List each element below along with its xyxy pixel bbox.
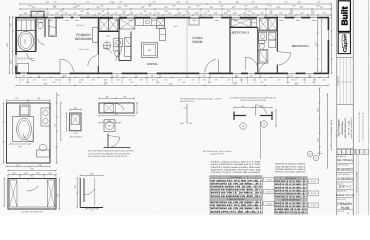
svg-text:1'8": 1'8"	[215, 79, 218, 82]
svg-text:2'10": 2'10"	[55, 79, 59, 82]
windows bottom wall	[20, 72, 28, 74]
svg-text:8'7": 8'7"	[115, 113, 118, 116]
svg-text:6'3": 6'3"	[59, 10, 62, 13]
svg-text:9/16/2022: 9/16/2022	[337, 168, 353, 172]
svg-text:HEAT LOSS BTU 24,600 A/C 2.: HEAT LOSS BTU 24,600 A/C 2.5 TON	[211, 163, 262, 166]
svg-text:3'4": 3'4"	[178, 12, 181, 15]
svg-text:5'6": 5'6"	[104, 82, 108, 85]
svg-text:1'6": 1'6"	[12, 172, 15, 175]
svg-text:7'2": 7'2"	[10, 23, 13, 26]
svg-text:36: 36	[242, 125, 244, 128]
svg-text:56-BSS-7674-24 PRIMARY PLAN: 56-BSS-7674-24 PRIMARY PLAN	[330, 119, 333, 150]
svg-text:ON LH ENTRY HOME. SEE SHT 2 FO: ON LH ENTRY HOME. SEE SHT 2 FOR NOTES	[88, 155, 128, 158]
svg-text:5'2": 5'2"	[140, 79, 143, 82]
right margin lines	[355, 150, 357, 214]
d1 shower box	[20, 105, 31, 116]
svg-text:DINING: DINING	[147, 62, 158, 66]
svg-text:13'-6 x 14'-0: 13'-6 x 14'-0	[79, 48, 89, 51]
svg-text:2'4": 2'4"	[252, 12, 255, 15]
table B callouts	[309, 179, 319, 183]
primary bdrm exterior door arc	[61, 59, 74, 72]
d1 bottom dim	[7, 166, 51, 168]
svg-text:4'0": 4'0"	[53, 1, 56, 4]
svg-text:3 LITE: 3 LITE	[266, 191, 272, 194]
svg-text:2'4": 2'4"	[114, 12, 117, 15]
svg-text:MODEL NO: MODEL NO	[337, 190, 347, 193]
fridge	[157, 19, 165, 29]
svg-text:WIND ZONE 1 THERMAL 2: WIND ZONE 1 THERMAL 2	[350, 117, 353, 138]
svg-text:3'0": 3'0"	[292, 5, 295, 8]
svg-text:5'2": 5'2"	[300, 12, 303, 15]
svg-text:Anniversary: Anniversary	[341, 121, 344, 135]
svg-text:2'0": 2'0"	[323, 79, 326, 82]
bed3 door arc	[245, 57, 258, 68]
d2 upper dim	[8, 169, 56, 171]
svg-text:3'4": 3'4"	[141, 6, 145, 9]
svg-text:2'8": 2'8"	[18, 145, 22, 148]
svg-text:4'0": 4'0"	[286, 81, 289, 84]
svg-text:SIZE 30X60 VINYL LOW-E: SIZE 30X60 VINYL LOW-E	[275, 165, 306, 168]
svg-text:OPT W/D 2'8" DOOR OPT: OPT W/D 2'8" DOOR OPT	[21, 210, 43, 213]
svg-text:DATE DRAWN: DATE DRAWN	[337, 164, 349, 167]
svg-text:8'0": 8'0"	[30, 168, 33, 171]
svg-text:5'6": 5'6"	[316, 5, 319, 8]
svg-text:1/19/2024: 1/19/2024	[337, 177, 353, 181]
dresser	[93, 28, 98, 43]
svg-text:CIRCUIT AMPS MAIN PANEL 200: CIRCUIT AMPS MAIN PANEL 200 AMP	[211, 166, 262, 169]
svg-text:7'6": 7'6"	[86, 12, 89, 15]
svg-text:3050: 3050	[65, 19, 69, 22]
primary bedroom right wall	[97, 17, 99, 73]
svg-text:5'2": 5'2"	[73, 12, 76, 15]
svg-text:3'4": 3'4"	[298, 1, 302, 4]
revision circles	[307, 151, 312, 156]
marriage line	[186, 19, 188, 73]
svg-text:4'0": 4'0"	[260, 12, 263, 15]
svg-text:6'3": 6'3"	[148, 12, 151, 15]
svg-text:9'2": 9'2"	[152, 79, 155, 82]
svg-text:2'8": 2'8"	[151, 75, 154, 78]
closet rod below bath	[18, 58, 35, 60]
svg-text:5'6": 5'6"	[56, 193, 59, 196]
windows top wall	[48, 17, 56, 19]
svg-text:DOORS 36X80 EXT LABELS: DOORS 36X80 EXT LABELS	[275, 168, 306, 171]
toilet room	[44, 17, 46, 37]
bottom dimension row 2	[16, 84, 328, 86]
svg-text:6'3": 6'3"	[214, 12, 217, 15]
svg-text:3/16" = 1': 3/16" = 1'	[339, 184, 352, 188]
svg-text:3'4": 3'4"	[78, 81, 81, 84]
svg-text:5'2": 5'2"	[300, 6, 304, 9]
title block fields	[337, 154, 353, 156]
primary bath toilet	[114, 47, 121, 51]
bath door arc	[27, 53, 36, 61]
primary bath vanity	[114, 39, 123, 47]
svg-text:3'4": 3'4"	[37, 97, 41, 100]
svg-text:FRONT DOOR ACTIVE OPTION: FRONT DOOR ACTIVE OPTION	[240, 99, 266, 102]
utility walls	[118, 17, 120, 61]
svg-text:GLASS LITE OPT: GLASS LITE OPT	[210, 153, 225, 156]
kitchen side counter	[160, 29, 166, 41]
svg-text:2'4": 2'4"	[196, 5, 199, 8]
svg-text:3'0": 3'0"	[218, 1, 221, 4]
svg-text:2 LITE: 2 LITE	[266, 203, 272, 206]
media cabinet	[189, 19, 199, 26]
svg-text:2'8": 2'8"	[203, 75, 206, 78]
D5 drawing	[234, 107, 272, 109]
svg-text:OPT FAN: OPT FAN	[76, 24, 84, 27]
svg-text:DO NOT SCALE DRAWING: DO NOT SCALE DRAWING	[356, 171, 359, 193]
bottom dimension row 1	[16, 76, 328, 78]
svg-text:BEDROOM: BEDROOM	[75, 37, 92, 41]
svg-text:2'8": 2'8"	[290, 75, 293, 78]
svg-text:3'4": 3'4"	[157, 12, 160, 15]
d4 door arc detail	[107, 134, 109, 148]
svg-text:6'3": 6'3"	[254, 6, 258, 9]
svg-text:3050: 3050	[152, 19, 156, 22]
svg-text:3050: 3050	[215, 19, 219, 22]
svg-text:4 LITE: 4 LITE	[266, 179, 272, 182]
svg-text:2'8": 2'8"	[250, 75, 253, 78]
svg-text:3'0": 3'0"	[240, 79, 243, 82]
svg-text:6'3": 6'3"	[177, 1, 181, 4]
svg-text:3'4": 3'4"	[220, 5, 223, 8]
svg-text:7'6": 7'6"	[268, 5, 271, 8]
detail D3 walls	[79, 178, 81, 208]
line A bottom marks	[317, 153, 323, 155]
bedroom door arc	[88, 56, 97, 66]
shower	[49, 18, 57, 37]
svg-text:4 LITE: 4 LITE	[311, 180, 317, 183]
svg-text:OPT WINDOW REPLACES REAR DOOR: OPT WINDOW REPLACES REAR DOOR (SASH) ON …	[230, 97, 277, 100]
svg-text:9'2": 9'2"	[124, 5, 127, 8]
svg-text:1: 1	[352, 151, 353, 154]
d1 top dim	[7, 99, 51, 101]
svg-text:SHT TITLE: SHT TITLE	[337, 198, 346, 201]
d1 toilet	[37, 150, 50, 157]
svg-text:OPT SHOWER: OPT SHOWER	[70, 135, 83, 138]
svg-text:5'2": 5'2"	[292, 79, 295, 82]
right vertical dimensions	[331, 4, 333, 73]
svg-text:3050: 3050	[49, 19, 53, 22]
svg-text:3'4": 3'4"	[117, 79, 120, 82]
svg-text:3'0": 3'0"	[143, 10, 146, 13]
svg-text:5'2": 5'2"	[15, 97, 19, 100]
corner bench	[17, 63, 29, 72]
svg-text:SYSTEM. OPT REV AMENDED. OPT E: SYSTEM. OPT REV AMENDED. OPT END PANTRY	[88, 152, 131, 155]
svg-text:2'0": 2'0"	[36, 172, 39, 175]
svg-text:CLAYTON HOMES BUILDING GROUP: CLAYTON HOMES BUILDING GROUP	[361, 111, 364, 141]
svg-text:5'6": 5'6"	[236, 1, 240, 4]
water heater box	[104, 120, 115, 132]
svg-text:5'2": 5'2"	[100, 5, 103, 8]
revision table upper	[337, 57, 353, 59]
table A callouts	[264, 178, 274, 182]
svg-text:1'4": 1'4"	[90, 209, 93, 212]
svg-text:1: 1	[361, 151, 362, 154]
d2 left dim	[3, 179, 5, 207]
svg-text:2'10": 2'10"	[89, 173, 94, 176]
long vertical dim line A	[319, 88, 321, 152]
svg-text:13: 13	[263, 123, 265, 126]
svg-text:56 X 76 1,160: 56 X 76 1,160	[347, 120, 350, 135]
svg-text:5'6": 5'6"	[106, 12, 109, 15]
svg-text:7'6": 7'6"	[206, 10, 209, 13]
svg-text:5'6": 5'6"	[26, 81, 29, 84]
svg-text:1'8": 1'8"	[46, 1, 50, 4]
left wall window	[15, 55, 17, 67]
svg-text:3'0": 3'0"	[295, 82, 299, 85]
svg-text:6'2": 6'2"	[54, 123, 57, 126]
logo Clayton box	[338, 33, 350, 54]
svg-text:6'3": 6'3"	[277, 6, 281, 9]
svg-text:REVISIONS: REVISIONS	[337, 75, 340, 86]
svg-text:2'0": 2'0"	[185, 1, 188, 4]
svg-text:2'4": 2'4"	[139, 12, 142, 15]
svg-text:11'2": 11'2"	[314, 42, 317, 46]
svg-text:3 LITE: 3 LITE	[311, 192, 317, 195]
hall bath vanity	[259, 32, 267, 40]
d1 door arc	[23, 134, 33, 142]
top wall bump-out	[31, 11, 44, 17]
svg-text:2'4": 2'4"	[118, 6, 122, 9]
sheet border lines	[336, 0, 338, 215]
right wall window	[327, 30, 329, 40]
svg-text:4'0": 4'0"	[303, 79, 306, 82]
bed3 closet	[230, 27, 258, 29]
svg-text:ROOM: ROOM	[193, 40, 203, 44]
detail D4a opt shower	[70, 113, 81, 131]
svg-text:PER PLAN SEE NOTES: PER PLAN SEE NOTES	[275, 171, 306, 174]
svg-text:4'0": 4'0"	[185, 10, 188, 13]
top band connectors	[46, 9, 48, 14]
svg-text:3'4": 3'4"	[233, 82, 237, 85]
svg-text:9'2": 9'2"	[233, 12, 236, 15]
svg-text:5'2": 5'2"	[52, 81, 55, 84]
hall bath closet boxes	[258, 30, 278, 32]
svg-text:2'6": 2'6"	[123, 96, 126, 99]
svg-text:2'8": 2'8"	[64, 75, 67, 78]
bedroom3 left wall	[229, 17, 231, 73]
svg-text:OPT: OPT	[174, 25, 177, 28]
d2 interior	[10, 180, 18, 207]
svg-text:WINDOW SCHEDULE EGRESS: WINDOW SCHEDULE EGRESS	[275, 163, 306, 166]
logo Built box	[338, 1, 350, 32]
svg-text:3'4": 3'4"	[210, 6, 214, 9]
svg-text:TOTAL CALC LOAD 96.4 AMPS: TOTAL CALC LOAD 96.4 AMPS	[211, 171, 262, 174]
svg-text:40.5: 40.5	[189, 122, 193, 125]
detail D1 outline	[7, 103, 51, 163]
svg-text:3'0": 3'0"	[74, 185, 77, 188]
svg-text:2'8": 2'8"	[308, 75, 311, 78]
svg-text:9'2": 9'2"	[33, 79, 36, 82]
svg-text:OPT WINDOW RELOCATES DOOR ASSY: OPT WINDOW RELOCATES DOOR ASSY - ON OPT	[180, 97, 223, 100]
hall bath linen	[269, 32, 276, 40]
svg-text:5'2": 5'2"	[172, 5, 175, 8]
svg-text:7'6": 7'6"	[188, 6, 192, 9]
svg-text:15'0": 15'0"	[6, 43, 9, 48]
garden tub	[17, 31, 35, 52]
svg-text:OPT PATIO DOOR - SEE (2) DOOR: OPT PATIO DOOR - SEE (2) DOOR	[203, 150, 232, 153]
svg-text:ELEC LOAD CALC SQ FT: ELEC LOAD CALC SQ FT 1,160	[211, 160, 261, 163]
svg-text:6'3": 6'3"	[44, 79, 47, 82]
svg-text:1'8": 1'8"	[169, 82, 173, 85]
svg-text:2'4": 2'4"	[165, 79, 168, 82]
svg-text:2'4": 2'4"	[244, 5, 247, 8]
svg-text:1'8": 1'8"	[68, 79, 71, 82]
svg-text:1'8": 1'8"	[76, 5, 79, 8]
d2 top dims	[8, 174, 56, 176]
pantry	[120, 19, 135, 29]
svg-text:BEDROOM 2: BEDROOM 2	[292, 44, 310, 48]
svg-text:2'10": 2'10"	[195, 12, 200, 15]
svg-text:3050: 3050	[193, 19, 197, 22]
d1 vanity	[41, 108, 50, 126]
svg-text:2'0": 2'0"	[148, 5, 151, 8]
svg-text:4'0": 4'0"	[251, 1, 254, 4]
svg-text:2'0": 2'0"	[130, 81, 133, 84]
d3 dims	[76, 178, 78, 208]
revision boxes row	[337, 150, 341, 155]
kitchen island	[142, 43, 158, 58]
svg-text:OPT TWO FRONT DOOR DASH (X4) I: OPT TWO FRONT DOOR DASH (X4) IN DATA CUT…	[88, 150, 135, 153]
utility door arcs	[103, 48, 112, 53]
svg-text:1'8": 1'8"	[192, 79, 195, 82]
top dimension row 1	[20, 3, 331, 5]
svg-text:7'6": 7'6"	[269, 10, 272, 13]
svg-text:2'10": 2'10"	[110, 1, 115, 4]
svg-text:Alex Whaley: Alex Whaley	[337, 158, 354, 162]
svg-text:5'6": 5'6"	[28, 5, 31, 8]
svg-text:9'2": 9'2"	[165, 6, 169, 9]
svg-text:2'0": 2'0"	[248, 10, 251, 13]
svg-text:2 LITE: 2 LITE	[311, 204, 317, 207]
svg-text:1'8": 1'8"	[80, 10, 83, 13]
d1 inner dims	[10, 143, 30, 145]
svg-text:3050: 3050	[75, 19, 79, 22]
svg-text:2'0": 2'0"	[24, 172, 27, 175]
svg-text:1: 1	[343, 151, 344, 154]
svg-text:1'6": 1'6"	[48, 172, 51, 175]
svg-text:56FKHBR28663AH23: 56FKHBR28663AH23	[344, 117, 347, 138]
svg-text:UTIL: UTIL	[106, 34, 110, 37]
long vertical dim line B	[327, 94, 329, 168]
svg-text:4'3": 4'3"	[57, 94, 60, 97]
top dimension row 2	[20, 8, 331, 10]
d2 side dims	[59, 179, 61, 210]
svg-text:12'6": 12'6"	[316, 108, 319, 113]
svg-text:2'4": 2'4"	[122, 10, 125, 13]
svg-text:1'8": 1'8"	[178, 79, 181, 82]
svg-text:PLAN: PLAN	[341, 206, 350, 210]
svg-text:5'2": 5'2"	[22, 79, 25, 82]
svg-text:2'8": 2'8"	[22, 75, 25, 78]
svg-text:3050: 3050	[312, 19, 316, 22]
svg-text:6'8": 6'8"	[10, 60, 13, 63]
svg-text:7'6": 7'6"	[168, 12, 171, 15]
svg-text:2'10": 2'10"	[227, 10, 231, 13]
svg-text:3'0": 3'0"	[241, 105, 244, 108]
svg-text:3050: 3050	[296, 19, 300, 22]
svg-text:5'6": 5'6"	[182, 81, 185, 84]
detail D2 outline	[8, 179, 56, 210]
svg-text:8'4": 8'4"	[316, 138, 319, 141]
svg-text:3'0": 3'0"	[101, 10, 104, 13]
svg-text:5'2": 5'2"	[24, 12, 27, 15]
bath right wall	[35, 17, 37, 52]
svg-text:Built: Built	[340, 6, 350, 25]
section line below D5	[260, 122, 262, 159]
detail D4b rear door option	[99, 97, 134, 99]
svg-text:1'8": 1'8"	[96, 6, 100, 9]
svg-text:2'4": 2'4"	[323, 12, 326, 15]
hall bath toilet	[259, 40, 265, 43]
svg-text:TUB: TUB	[24, 39, 27, 44]
svg-text:3'0": 3'0"	[92, 79, 95, 82]
hall bath door arc	[260, 63, 266, 71]
svg-text:5'2": 5'2"	[278, 79, 281, 82]
svg-text:2'0": 2'0"	[312, 81, 315, 84]
dim extension lines top	[19, 16, 21, 17]
svg-text:34.5: 34.5	[74, 132, 78, 135]
svg-text:5'6": 5'6"	[279, 12, 282, 15]
svg-text:2'4": 2'4"	[64, 12, 67, 15]
bath shelf box	[17, 20, 35, 31]
svg-text:5'2": 5'2"	[317, 1, 320, 4]
svg-text:2'4": 2'4"	[284, 1, 287, 4]
d1 tub	[13, 116, 34, 141]
svg-text:2'9": 2'9"	[38, 164, 42, 167]
d1 left dim	[2, 103, 4, 163]
svg-text:1'8": 1'8"	[164, 10, 167, 13]
fan circle	[103, 42, 110, 49]
svg-text:5'2": 5'2"	[32, 6, 36, 9]
washer dryer	[100, 19, 109, 31]
svg-text:7'6": 7'6"	[52, 5, 55, 8]
svg-text:3'0": 3'0"	[119, 1, 122, 4]
svg-text:DATE REVISED: DATE REVISED	[337, 173, 350, 176]
top dimension row 3	[20, 14, 331, 16]
svg-text:2'0": 2'0"	[203, 79, 206, 82]
svg-text:40.5: 40.5	[180, 122, 184, 125]
entry door arc	[205, 59, 216, 72]
main floor plan exterior walls	[16, 18, 328, 74]
svg-text:6'3": 6'3"	[44, 82, 48, 85]
bath bottom wall	[16, 51, 36, 53]
bed2 interior dims	[317, 20, 319, 72]
svg-text:SERVICE 120/240V 1PH 3W NEC: SERVICE 120/240V 1PH 3W NEC 550	[211, 169, 261, 172]
svg-text:2'4": 2'4"	[252, 79, 255, 82]
linen shelves	[125, 37, 131, 46]
svg-text:2'8": 2'8"	[116, 75, 119, 78]
left vertical dimensions	[12, 17, 14, 74]
svg-text:5'2": 5'2"	[232, 6, 236, 9]
svg-text:3'0": 3'0"	[264, 79, 267, 82]
svg-text:1'8": 1'8"	[152, 1, 155, 4]
svg-text:3'0": 3'0"	[260, 81, 263, 84]
svg-text:ACTIVE OPTION: ACTIVE OPTION	[180, 100, 194, 103]
svg-text:BEDROOM 3: BEDROOM 3	[232, 30, 250, 34]
kitchen cabinets top	[136, 19, 165, 26]
svg-text:3'4": 3'4"	[55, 12, 58, 15]
svg-text:1022 FORD AVE MARYVILLE TN 37: 1022 FORD AVE MARYVILLE TN 37804	[358, 112, 361, 142]
hall bath shower	[258, 49, 268, 63]
svg-text:3050: 3050	[279, 19, 283, 22]
svg-text:7'6": 7'6"	[320, 6, 324, 9]
d4b dims below	[99, 115, 134, 117]
svg-text:9'2": 9'2"	[86, 1, 89, 4]
bed2 door opening	[276, 52, 278, 65]
